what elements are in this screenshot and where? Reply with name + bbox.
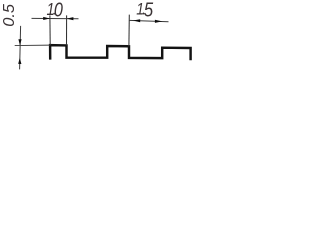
profile outline (square-wave sheet) [50,45,191,60]
arrowhead up (tip at bottom profile level) [18,58,21,64]
extension line at x=50 (1.0 dim, left) [49,15,51,45]
dimension line 0.5 (vertical) [20,26,21,70]
arrowhead right (tip at x=50) [43,17,50,20]
arrowhead left (1.5 dim) [133,19,140,22]
background [0,0,195,74]
svg-text:5: 5 [144,0,154,21]
dimension line 1.5 [129,20,169,21]
arrowhead down (tip at top extension line) [18,39,21,45]
dimension line 1.0 [32,17,79,19]
arrowhead right (1.5 dim) [155,20,162,23]
svg-text:0.5: 0.5 [1,4,18,27]
extension line at x=129 (1.5 dim) [128,15,130,47]
extension line at x=66.6 (1.0 dim, right) [66,15,68,45]
extension line (top of profile, for 0.5 dim) [15,44,50,46]
arrowhead left (tip at x=66.6) [67,17,74,20]
svg-text:0: 0 [54,0,63,21]
